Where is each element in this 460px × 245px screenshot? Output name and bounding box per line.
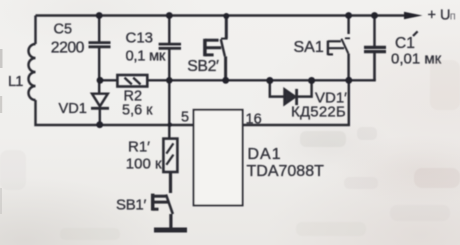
svg-text:КД522Б: КД522Б <box>291 104 346 121</box>
svg-text:5: 5 <box>181 110 189 126</box>
svg-text:TDA7088T: TDA7088T <box>247 163 325 180</box>
svg-text:2200: 2200 <box>51 39 85 56</box>
svg-text:SB1′: SB1′ <box>116 197 146 214</box>
svg-text:5,6 к: 5,6 к <box>122 103 153 119</box>
svg-text:16: 16 <box>246 112 262 128</box>
svg-text:SB2′: SB2′ <box>187 58 219 75</box>
svg-text:C1: C1 <box>395 35 415 52</box>
svg-text:DA1: DA1 <box>248 146 282 163</box>
svg-text:п: п <box>450 11 456 23</box>
svg-text:C13: C13 <box>126 30 154 47</box>
svg-text:VD1: VD1 <box>59 101 87 117</box>
svg-text:L1: L1 <box>8 74 23 90</box>
svg-text:0,1 мк: 0,1 мк <box>126 48 166 64</box>
svg-text:100 к: 100 к <box>126 156 162 173</box>
svg-text:C5: C5 <box>54 22 73 38</box>
svg-text:SA1: SA1 <box>294 39 324 56</box>
svg-text:+ U: + U <box>428 8 451 24</box>
svg-text:R1′: R1′ <box>128 139 150 156</box>
